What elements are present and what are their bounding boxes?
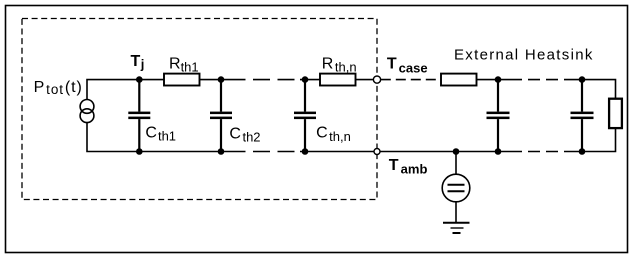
node C_th,n bottom junction xyxy=(302,148,309,155)
node C_th,n top junction xyxy=(302,76,309,83)
resistor external heatsink (vertical, unlabeled) xyxy=(609,99,622,128)
node C_th2 bottom junction xyxy=(218,148,225,155)
capacitor C_th2 xyxy=(210,80,232,152)
wire top rail: C_th,n node to R_th,n xyxy=(300,79,320,81)
resistor R_th1 xyxy=(164,74,200,86)
wire bottom rail: cap2 node to vertical resistor bottom lead xyxy=(574,129,616,152)
node heatsink cap2 bottom junction xyxy=(579,148,586,155)
wire top rail: heatsink resistor to cap node xyxy=(477,79,511,81)
wire bottom rail: T_amb to heatsink cap1 xyxy=(380,151,510,153)
wire bottom rail dashed: cap1 to cap2 xyxy=(510,151,574,153)
wire: current source bottom lead and bottom rail to C_th2 xyxy=(87,123,229,152)
node heatsink cap1 bottom junction xyxy=(495,148,502,155)
node C_th1 bottom junction xyxy=(136,148,143,155)
dashed boundary box (thermal network of device) xyxy=(22,19,377,200)
wire top rail: R_th,n to T_case xyxy=(356,79,374,81)
node T_case (case terminal, open circle) xyxy=(373,76,380,83)
wire top rail dashed: C_th2 to C_th,n xyxy=(229,79,301,81)
node T_j (junction dot) xyxy=(136,76,143,83)
svg-text:External Heatsink: External Heatsink xyxy=(454,46,594,63)
svg-text:Ptot(t): Ptot(t) xyxy=(34,79,83,97)
node C_th2 top junction xyxy=(218,76,225,83)
svg-text:Tj: Tj xyxy=(131,53,145,72)
node ambient source junction xyxy=(453,148,460,155)
voltage source: ambient temperature source xyxy=(442,152,470,223)
svg-text:Cth1: Cth1 xyxy=(145,124,176,143)
wire top rail dashed: T_case to heatsink resistor xyxy=(381,79,441,81)
svg-text:Rth,n: Rth,n xyxy=(322,55,357,74)
ground xyxy=(443,223,470,233)
svg-text:Rth1: Rth1 xyxy=(169,55,199,74)
wire bottom rail dashed: C_th2 to C_th,n xyxy=(229,151,301,153)
wire: current source top lead and top rail to R_th1 xyxy=(87,80,164,100)
current source P_tot(t) xyxy=(80,100,94,123)
resistor R_th,n xyxy=(320,74,356,86)
capacitor external heatsink 1 xyxy=(487,80,510,152)
svg-text:Cth,n: Cth,n xyxy=(316,125,351,144)
capacitor C_th,n xyxy=(294,80,316,152)
wire top rail dashed: heatsink cap1 to cap2 xyxy=(510,79,574,81)
node heatsink cap1 top junction xyxy=(495,76,502,83)
wire bottom rail: C_th,n node to T_amb xyxy=(300,151,375,153)
resistor external heatsink (horizontal, unlabeled) xyxy=(441,74,477,86)
svg-text:Cth2: Cth2 xyxy=(229,125,260,144)
node T_amb (ambient terminal, open circle) xyxy=(374,149,380,155)
capacitor C_th1 xyxy=(128,80,150,152)
wire top rail: cap2 node to vertical resistor top lead xyxy=(574,80,616,98)
node heatsink cap2 top junction xyxy=(579,76,586,83)
wire top rail: R_th1 to C_th2 node xyxy=(200,79,229,81)
svg-text:Tamb: Tamb xyxy=(389,157,428,176)
svg-text:Tcase: Tcase xyxy=(387,55,428,75)
capacitor external heatsink 2 xyxy=(571,80,594,152)
